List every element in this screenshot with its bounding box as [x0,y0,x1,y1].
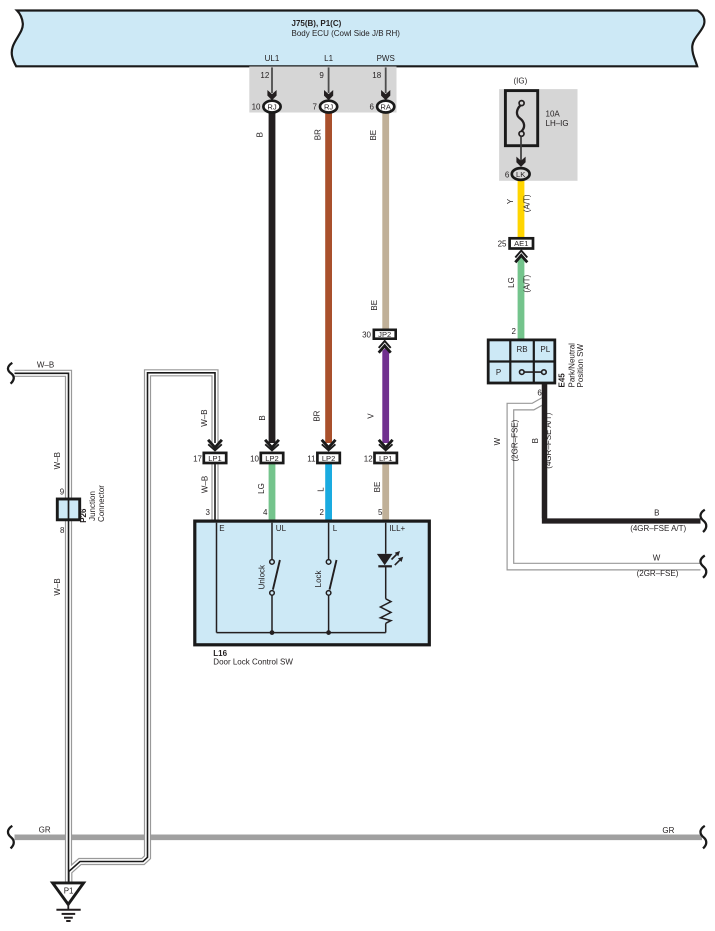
svg-text:(A/T): (A/T) [522,274,531,292]
svg-text:2: 2 [320,508,325,517]
svg-text:10: 10 [250,455,259,464]
svg-text:BR: BR [314,129,323,140]
svg-text:W–B: W–B [201,476,210,493]
svg-text:8: 8 [60,526,65,535]
svg-text:JP2: JP2 [378,330,391,339]
svg-text:GR: GR [662,826,674,835]
svg-text:L1: L1 [324,54,333,63]
svg-text:(IG): (IG) [514,77,528,86]
svg-text:BR: BR [312,410,321,421]
svg-text:UL: UL [276,524,287,533]
svg-text:LP2: LP2 [322,454,336,463]
svg-text:E: E [219,524,224,533]
svg-text:P1: P1 [64,887,74,896]
svg-text:9: 9 [319,71,324,80]
svg-text:6: 6 [370,103,375,112]
svg-text:B: B [654,508,659,517]
svg-text:Park/Neutral: Park/Neutral [567,343,576,388]
svg-text:LK: LK [516,170,525,179]
svg-text:PL: PL [540,345,550,354]
svg-text:6: 6 [505,171,510,180]
svg-text:RB: RB [516,345,527,354]
svg-text:W–B: W–B [200,409,209,426]
svg-text:BE: BE [369,130,378,141]
svg-text:Connector: Connector [97,485,106,522]
svg-text:J75(B), P1(C): J75(B), P1(C) [292,19,342,28]
svg-text:W–B: W–B [53,452,62,469]
svg-text:LG: LG [507,277,516,288]
svg-text:(2GR–FSE): (2GR–FSE) [511,419,520,461]
svg-text:LG: LG [257,483,266,494]
svg-text:(A/T): (A/T) [522,194,531,212]
svg-text:BE: BE [370,300,379,311]
svg-text:L: L [333,524,338,533]
svg-text:LP1: LP1 [208,454,222,463]
svg-text:Lock: Lock [314,569,323,587]
svg-text:W: W [653,553,661,562]
svg-text:RJ: RJ [267,102,276,111]
svg-text:B: B [258,415,267,420]
svg-text:BE: BE [373,482,382,493]
svg-text:11: 11 [307,455,316,464]
svg-text:Door Lock Control SW: Door Lock Control SW [213,657,293,666]
svg-text:17: 17 [193,455,202,464]
svg-text:GR: GR [39,825,51,834]
svg-text:LH–IG: LH–IG [546,119,569,128]
svg-text:6: 6 [537,388,542,397]
svg-text:E45: E45 [558,373,567,388]
svg-text:Body ECU (Cowl Side J/B RH): Body ECU (Cowl Side J/B RH) [292,29,401,38]
svg-text:V: V [366,413,375,419]
svg-text:2: 2 [512,327,517,336]
svg-text:Junction: Junction [88,491,97,521]
svg-text:25: 25 [498,240,507,249]
svg-text:5: 5 [378,508,383,517]
svg-text:LP1: LP1 [379,454,393,463]
svg-text:P26: P26 [79,508,88,523]
svg-text:B: B [531,438,540,443]
svg-text:30: 30 [362,330,371,339]
svg-text:ILL+: ILL+ [389,524,405,533]
svg-text:L: L [317,487,326,492]
svg-text:UL1: UL1 [265,54,280,63]
svg-text:Y: Y [506,198,515,204]
svg-text:7: 7 [313,103,318,112]
svg-text:RA: RA [380,102,391,111]
svg-text:B: B [256,132,265,137]
svg-text:AE1: AE1 [514,239,528,248]
svg-text:LP2: LP2 [265,454,279,463]
svg-text:4: 4 [263,508,268,517]
svg-text:(4GR–FSE A/T): (4GR–FSE A/T) [630,524,686,533]
svg-text:10A: 10A [546,110,561,119]
svg-text:12: 12 [260,71,269,80]
svg-text:W–B: W–B [53,578,62,595]
svg-text:W: W [493,437,502,445]
svg-text:(2GR–FSE): (2GR–FSE) [637,569,679,578]
svg-text:18: 18 [372,71,381,80]
svg-text:Position SW: Position SW [576,343,585,387]
svg-text:Unlock: Unlock [258,564,267,589]
svg-text:10: 10 [252,103,261,112]
svg-text:RJ: RJ [324,102,333,111]
svg-text:9: 9 [60,488,65,497]
svg-text:P: P [496,368,501,377]
svg-text:W–B: W–B [37,360,54,369]
svg-text:3: 3 [206,508,211,517]
svg-text:PWS: PWS [377,54,395,63]
svg-text:12: 12 [364,455,373,464]
svg-text:(4GR–FSE A/T): (4GR–FSE A/T) [544,412,553,468]
